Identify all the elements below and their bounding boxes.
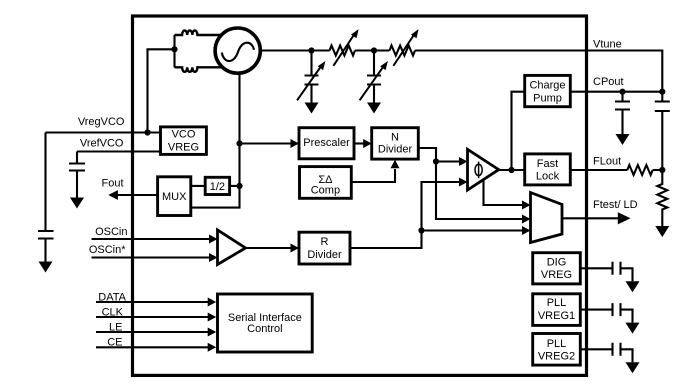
svg-text:VREG2: VREG2 xyxy=(538,351,575,363)
svg-text:VregVCO: VregVCO xyxy=(78,116,125,128)
svg-text:1/2: 1/2 xyxy=(210,181,225,193)
svg-text:DATA: DATA xyxy=(98,291,126,303)
svg-text:N: N xyxy=(391,132,399,144)
svg-text:Prescaler: Prescaler xyxy=(303,137,350,149)
svg-text:R: R xyxy=(321,236,329,248)
svg-text:PLL: PLL xyxy=(547,297,567,309)
svg-text:OSCin: OSCin xyxy=(95,226,127,238)
svg-text:VREG: VREG xyxy=(168,141,199,153)
svg-text:VREG: VREG xyxy=(541,269,572,281)
svg-text:CE: CE xyxy=(107,337,122,349)
svg-text:Lock: Lock xyxy=(536,171,560,183)
svg-text:Control: Control xyxy=(247,323,282,335)
svg-text:Charge: Charge xyxy=(529,80,565,92)
svg-text:Fast: Fast xyxy=(537,158,558,170)
svg-text:Fout: Fout xyxy=(101,178,123,190)
svg-text:FLout: FLout xyxy=(593,156,621,168)
svg-text:CPout: CPout xyxy=(593,76,624,88)
svg-text:VREG1: VREG1 xyxy=(538,310,575,322)
svg-text:Ftest/ LD: Ftest/ LD xyxy=(593,199,638,211)
svg-text:OSCin*: OSCin* xyxy=(89,244,126,256)
svg-text:VCO: VCO xyxy=(172,129,196,141)
svg-text:MUX: MUX xyxy=(162,191,187,203)
svg-text:LE: LE xyxy=(109,321,122,333)
svg-text:Pump: Pump xyxy=(533,92,562,104)
svg-text:VrefVCO: VrefVCO xyxy=(80,138,124,150)
svg-text:Vtune: Vtune xyxy=(593,39,622,51)
svg-text:Divider: Divider xyxy=(378,144,413,156)
svg-text:Comp: Comp xyxy=(311,184,340,196)
svg-text:Divider: Divider xyxy=(307,249,342,261)
svg-text:PLL: PLL xyxy=(547,338,567,350)
svg-text:DIG: DIG xyxy=(547,256,567,268)
svg-text:CLK: CLK xyxy=(102,306,124,318)
